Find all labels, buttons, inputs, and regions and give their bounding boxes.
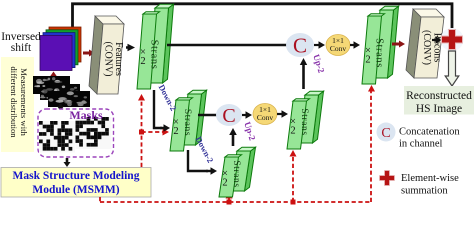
- svg-text:Strans: Strans: [231, 160, 241, 187]
- svg-text:Measurements with: Measurements with: [19, 68, 29, 136]
- svg-text:Strans: Strans: [374, 38, 385, 68]
- svg-text:Strans: Strans: [182, 109, 192, 136]
- svg-text:Strans: Strans: [149, 40, 160, 70]
- svg-text:2: 2: [222, 178, 227, 189]
- svg-text:(CONV): (CONV): [421, 30, 432, 65]
- svg-text:shift: shift: [11, 42, 32, 54]
- svg-text:2: 2: [140, 56, 145, 67]
- svg-text:Conv: Conv: [330, 44, 347, 53]
- svg-text:Concatenation: Concatenation: [399, 127, 460, 138]
- svg-text:C: C: [222, 105, 235, 127]
- svg-text:C: C: [293, 33, 307, 57]
- svg-text:Features: Features: [113, 42, 124, 76]
- svg-text:Reconstructed: Reconstructed: [406, 90, 472, 102]
- svg-text:Mask Structure Modeling: Mask Structure Modeling: [13, 170, 140, 182]
- svg-text:Element-wise: Element-wise: [401, 173, 459, 184]
- svg-text:HS Image: HS Image: [416, 103, 462, 115]
- svg-text:different distribution: different distribution: [9, 66, 19, 138]
- svg-text:Strans: Strans: [299, 108, 309, 135]
- svg-text:summation: summation: [401, 186, 448, 197]
- svg-text:2: 2: [173, 126, 178, 137]
- svg-text:Module (MSMM): Module (MSMM): [32, 184, 119, 196]
- svg-text:in channel: in channel: [399, 139, 443, 150]
- svg-text:Conv: Conv: [257, 113, 274, 122]
- svg-text:C: C: [381, 126, 390, 141]
- svg-text:2: 2: [365, 55, 370, 66]
- svg-text:2: 2: [290, 126, 295, 137]
- svg-text:(CONV): (CONV): [103, 42, 114, 77]
- svg-text:Masks: Masks: [69, 108, 103, 122]
